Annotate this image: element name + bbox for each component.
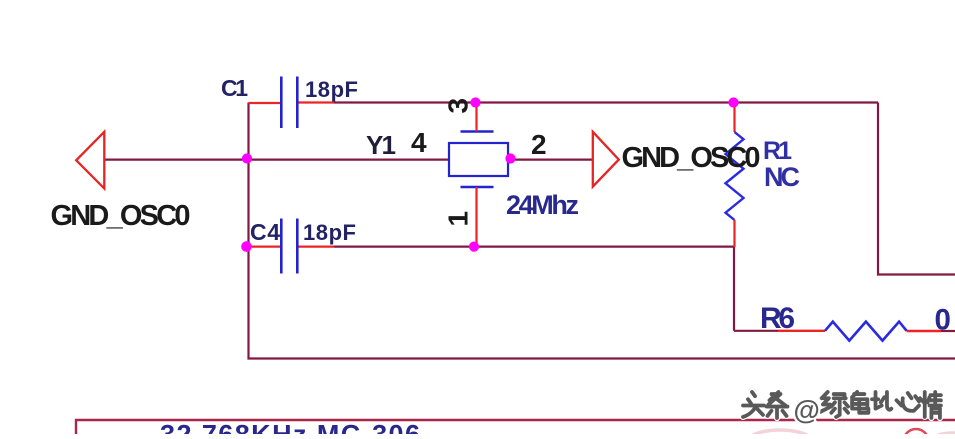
off-page connector GND_OSC0 right [593, 132, 619, 187]
svg-text:32.768KHz MC-306: 32.768KHz MC-306 [160, 420, 420, 435]
wire middle horizontal (right of Y1) [510, 159, 594, 161]
resistor R1 [726, 103, 744, 248]
wire C1 left stub [249, 102, 282, 104]
svg-text:18pF: 18pF [303, 220, 356, 245]
wire right vertical drop [878, 103, 955, 275]
wire left vertical bus [249, 103, 955, 359]
junction dot at crystal pin3 / top wire [470, 97, 480, 107]
svg-text:18pF: 18pF [305, 77, 358, 102]
wire R1 bottom vertical [733, 247, 735, 331]
svg-text:R6: R6 [760, 302, 795, 335]
wire R6 right segment [907, 330, 955, 332]
svg-text:1: 1 [443, 211, 474, 227]
svg-text:4: 4 [411, 127, 427, 158]
svg-text:3: 3 [443, 98, 474, 114]
off-page connector GND_OSC0 left [76, 132, 104, 189]
junction dot at crystal pin2 [505, 153, 515, 163]
svg-text:24Mhz: 24Mhz [506, 190, 579, 220]
svg-text:GND_OSC0: GND_OSC0 [622, 142, 761, 174]
svg-text:R1: R1 [763, 137, 792, 165]
wire net GND_OSC top horizontal [297, 101, 878, 103]
wire middle horizontal (left of Y1) [105, 159, 449, 161]
capacitor C1 [281, 77, 297, 129]
svg-text:GND_OSC0: GND_OSC0 [51, 200, 191, 232]
svg-text:@: @ [794, 395, 820, 425]
frame of lower schematic block [76, 420, 955, 434]
junction dot at crystal pin1 / bottom wire [469, 242, 479, 252]
capacitor C4 [281, 219, 297, 274]
wire R6 left segment [734, 330, 825, 332]
svg-text:2: 2 [531, 129, 547, 160]
stamp fragment pink left [747, 430, 813, 439]
wire C4 left stub [249, 246, 282, 248]
junction dot at R1 / top wire [728, 97, 738, 107]
junction dot at left bus / middle wire [242, 153, 252, 163]
svg-text:Y1: Y1 [366, 130, 396, 160]
stamp fragment pink right [929, 433, 955, 439]
stamp fragment red arc [903, 429, 929, 439]
wire bottom horizontal [297, 246, 734, 248]
svg-text:C1: C1 [221, 75, 248, 101]
svg-text:0: 0 [935, 304, 951, 337]
svg-text:NC: NC [764, 162, 800, 192]
svg-text:C4: C4 [250, 219, 280, 245]
crystal Y1 [449, 103, 508, 246]
resistor R6 [825, 322, 907, 341]
junction dot at left bus / C4 wire [241, 241, 252, 252]
